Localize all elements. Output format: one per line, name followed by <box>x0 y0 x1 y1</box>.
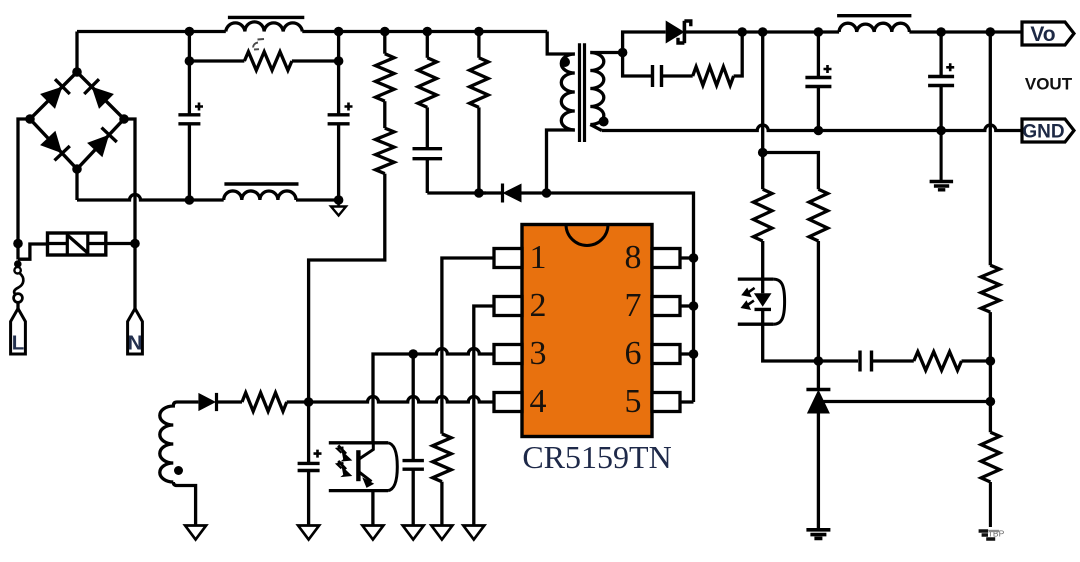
svg-text:5: 5 <box>625 383 642 420</box>
wire bottom rail right lead <box>296 198 339 201</box>
L2 core bar <box>837 14 911 17</box>
opto U2 phototransistor <box>329 441 388 444</box>
node C8 top <box>936 27 946 37</box>
earth ground faint TBP <box>979 531 996 539</box>
wire clamp bottom <box>427 191 486 194</box>
resistor R2 startup <box>376 54 395 101</box>
terminal Vo <box>1022 22 1074 45</box>
earth ground at C8 <box>940 131 943 182</box>
TL431 U3 <box>806 388 830 392</box>
earth ground at TL431 <box>806 530 830 539</box>
svg-text:4: 4 <box>530 383 547 420</box>
wire top rail mid <box>302 30 547 33</box>
node C8 gnd <box>936 126 946 136</box>
choke core bar bottom <box>224 182 298 185</box>
diode D6 aux <box>177 400 198 403</box>
resistor R7 (pin1) <box>433 434 452 482</box>
node pin8 strap <box>689 253 699 263</box>
wire bridge left to L line <box>18 119 30 244</box>
transformer T1 secondary winding <box>590 53 604 125</box>
bridge rectifier BD1 frame <box>30 72 124 169</box>
node R1 left <box>185 56 195 66</box>
node L-fuse junction <box>13 239 23 249</box>
node Vout divider tap <box>758 27 768 37</box>
wire GND rail <box>602 125 1023 130</box>
wire Vout tap down <box>761 32 764 153</box>
node pin7 strap <box>689 301 699 311</box>
resistor R9 opto bias <box>753 189 772 241</box>
ground arrow pin1 <box>431 526 452 540</box>
wire pin3 to opto collector <box>373 354 413 443</box>
wire startup to VCC <box>309 174 385 402</box>
wire comp node to TL431 <box>817 361 820 390</box>
svg-text:CR5159TN: CR5159TN <box>522 439 671 475</box>
wire primary top lead <box>547 32 575 55</box>
wire LED cathode down <box>763 324 819 361</box>
svg-text:VOUT: VOUT <box>1025 75 1073 94</box>
wire pin1 to R7 <box>442 258 494 434</box>
node bridge AC right <box>119 114 129 124</box>
node pin6 strap <box>689 349 699 359</box>
resistor R10 fb <box>809 189 828 241</box>
T1 primary phase dot <box>560 57 570 67</box>
wire clamp node to drain strap <box>547 193 694 402</box>
node C2 top <box>334 27 344 37</box>
node clamp-diode junction <box>474 188 484 198</box>
wire sense down <box>989 32 992 265</box>
node primary bottom junction <box>542 188 552 198</box>
inductor L2 output <box>839 23 909 32</box>
wire pin8 stub <box>680 256 694 259</box>
wire secondary bottom lead <box>590 125 602 131</box>
node C7 top <box>814 27 824 37</box>
resistor R3 startup <box>376 128 395 174</box>
T1 secondary phase dot <box>599 117 609 127</box>
diode D3 (bridge bottom-left) <box>40 131 62 154</box>
node secondary top <box>618 48 628 58</box>
artifact erased label mark <box>253 39 264 50</box>
node fb tee <box>758 148 768 158</box>
node C1 bottom <box>185 195 195 205</box>
wire divider mid segment <box>989 361 992 432</box>
node C7 gnd <box>814 126 824 136</box>
fuse F1 <box>48 233 106 255</box>
node ref tap <box>986 397 996 407</box>
choke core bar top <box>228 16 304 19</box>
wire pin2 to ground <box>474 306 494 526</box>
T1 aux phase dot <box>174 466 183 475</box>
svg-text:2: 2 <box>530 287 547 324</box>
terminal GND <box>1022 119 1074 142</box>
diode D2 (bridge top-right) <box>92 87 114 109</box>
wire comp to C9 <box>818 359 858 362</box>
node D7 cathode <box>737 27 747 37</box>
node C2 bottom <box>334 195 344 205</box>
inductor T1 aux winding <box>160 402 177 482</box>
capacitor C6 snubber <box>651 65 654 87</box>
wire snubber left leg <box>623 53 652 77</box>
capacitor C1 bulk + <box>188 32 191 115</box>
capacitor C7 output + <box>817 32 820 78</box>
wire bridge right to N line <box>124 119 135 309</box>
wire pin6 stub <box>680 352 694 355</box>
wire primary bottom lead <box>547 130 575 193</box>
node N-fuse junction <box>130 239 140 249</box>
node bridge+ (top) <box>72 67 82 77</box>
diode D7 output schottky <box>666 21 685 44</box>
node pin3-C5 <box>408 349 418 359</box>
chassis ground at C2 <box>337 200 340 207</box>
wire opto emitter to ground <box>371 490 374 526</box>
wire pin5 stub <box>680 400 694 403</box>
wire pin4 line with hops <box>309 397 494 403</box>
inductor LF1a (choke top winding) <box>226 22 302 32</box>
wire fb tee to R10 <box>763 153 819 190</box>
node C1 top <box>185 27 195 37</box>
node bridge AC left <box>25 114 35 124</box>
capacitor C5 (pin3) <box>412 354 415 461</box>
svg-text:N: N <box>128 332 143 355</box>
transformer T1 primary winding <box>561 54 575 130</box>
node divider mid <box>986 356 996 366</box>
op-amp U1 CR5159TN body <box>522 225 652 437</box>
wire bottom rail <box>77 195 224 201</box>
capacitor C4 VCC + <box>307 402 310 463</box>
svg-text:8: 8 <box>625 239 642 276</box>
node Vo sense <box>986 27 996 37</box>
wire fuse right lead <box>106 242 135 245</box>
T1 core <box>578 43 581 142</box>
svg-text:Vo: Vo <box>1030 23 1055 46</box>
node startup top <box>380 27 390 37</box>
node clamp R4 top <box>423 27 433 37</box>
diode D5 clamp <box>479 191 503 194</box>
node comp <box>814 356 824 366</box>
svg-text:6: 6 <box>625 335 642 372</box>
capacitor C3 clamp <box>426 107 429 148</box>
wire TL431 ref <box>824 400 991 403</box>
wire output rail <box>742 30 839 33</box>
svg-text:L: L <box>12 332 25 355</box>
U1 pin boxes <box>494 249 522 268</box>
node bridge- (bottom) <box>72 164 82 174</box>
diode D4 (bridge bottom-right) <box>87 135 109 158</box>
capacitor C2 bulk + <box>337 32 340 115</box>
resistor R11 comp <box>914 352 962 371</box>
svg-text:3: 3 <box>530 335 547 372</box>
resistor R8 snubber <box>693 67 734 86</box>
resistor R1 damper <box>244 52 292 71</box>
ground arrow C4 <box>298 526 319 540</box>
U1 notch <box>566 225 608 246</box>
ground arrow opto <box>362 526 383 540</box>
svg-text:1: 1 <box>530 239 547 276</box>
resistor R13 divider lower <box>981 432 1000 482</box>
thermistor curl on L lead <box>16 244 19 260</box>
capacitor C9 comp <box>858 351 861 372</box>
wire secondary top to diode <box>623 32 666 53</box>
resistor R12 divider upper <box>981 265 1000 312</box>
ground arrow aux <box>185 526 206 540</box>
svg-text:GND: GND <box>1022 122 1064 143</box>
resistor R5 clamp <box>470 58 489 108</box>
wire bridge bottom to rail <box>75 169 78 200</box>
terminal L <box>11 309 26 355</box>
node clamp R5 top <box>474 27 484 37</box>
terminal N <box>128 309 143 355</box>
wire aux bottom to ground <box>173 482 195 526</box>
node VCC <box>304 397 314 407</box>
ground arrow pin2 <box>463 526 484 540</box>
svg-text:7: 7 <box>625 287 642 324</box>
wire pin3 line with hops <box>413 349 494 354</box>
wire bridge top to rail <box>75 32 78 73</box>
opto U2 LED <box>738 277 774 280</box>
ground arrow C5 <box>403 526 424 540</box>
wire fuse left lead (Z-step) <box>18 244 48 259</box>
wire pin7 stub <box>680 304 694 307</box>
capacitor C8 output + <box>939 32 942 77</box>
resistor R6 VCC feed <box>242 393 287 412</box>
inductor LF1b (choke bottom winding) <box>224 191 296 200</box>
diode D1 (bridge top-left) <box>40 87 62 109</box>
wire top rail left <box>77 30 226 33</box>
wire secondary top lead <box>590 51 622 54</box>
node R1 right <box>334 56 344 66</box>
resistor R4 clamp <box>418 58 437 108</box>
